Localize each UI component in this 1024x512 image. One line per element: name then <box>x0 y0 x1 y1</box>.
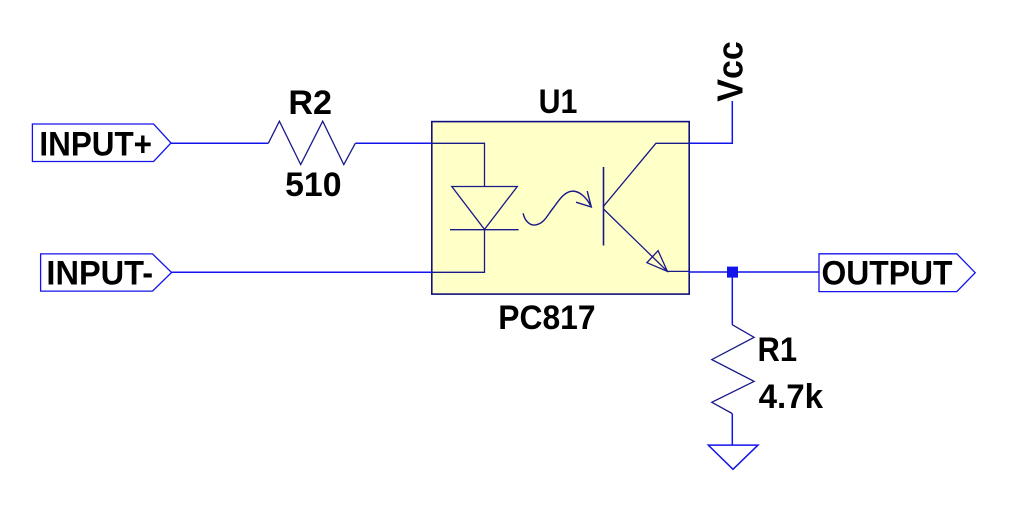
wire U1 emitter to OUTPUT node <box>689 271 819 273</box>
OUTPUT port flag <box>819 254 975 292</box>
svg-text:U1: U1 <box>539 82 578 120</box>
INPUT- port flag <box>41 254 172 291</box>
svg-text:Vcc: Vcc <box>711 41 751 102</box>
squiggle arrowhead <box>576 191 591 207</box>
transistor emitter <box>604 209 690 271</box>
wire R2 to U1 pin1 <box>355 142 432 144</box>
wire U1 collector to Vcc <box>689 101 732 143</box>
svg-text:PC817: PC817 <box>498 299 595 337</box>
resistor R1 zigzag <box>712 325 754 414</box>
LED diode triangle <box>452 187 518 230</box>
wire INPUT+ flag to R2 <box>171 142 268 144</box>
resistor R2 zigzag <box>268 121 355 164</box>
svg-text:4.7k: 4.7k <box>759 378 824 417</box>
wire R1 to ground <box>731 414 733 446</box>
transistor collector <box>604 143 690 206</box>
svg-text:R1: R1 <box>758 329 798 368</box>
svg-text:INPUT+: INPUT+ <box>39 124 152 163</box>
ground <box>708 445 758 469</box>
LED cathode bar <box>450 229 519 231</box>
light squiggle arrow <box>523 191 590 225</box>
LED cathode lead inside U1 <box>432 230 485 273</box>
LED anode lead inside U1 <box>432 143 485 186</box>
INPUT+ port flag <box>32 124 171 162</box>
node junction at OUTPUT <box>727 267 738 278</box>
svg-text:R2: R2 <box>288 84 332 122</box>
svg-text:OUTPUT: OUTPUT <box>822 254 953 292</box>
wire node to R1 <box>731 272 733 325</box>
transistor Q base bar <box>603 167 605 246</box>
svg-text:INPUT-: INPUT- <box>46 255 153 293</box>
transistor emitter arrowhead <box>647 251 668 272</box>
op-amp U1 optocoupler body <box>432 122 689 295</box>
wire INPUT- flag to U1 pin2 <box>172 271 432 273</box>
svg-text:510: 510 <box>285 165 341 203</box>
